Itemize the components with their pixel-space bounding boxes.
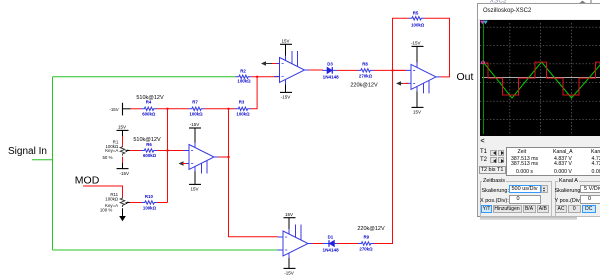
svg-text:100kΩ: 100kΩ bbox=[237, 79, 251, 84]
wire vertical net x167.5 bbox=[167, 109, 169, 203]
scope timebase input bbox=[509, 185, 541, 194]
svg-text:D1: D1 bbox=[328, 234, 334, 239]
wire junction F to U4 minus input bbox=[393, 69, 406, 71]
wire D3 to R8 bbox=[338, 69, 358, 71]
ground arrow below R11 bbox=[119, 208, 126, 221]
resistor R2 bbox=[236, 69, 252, 84]
node MOD label bbox=[75, 174, 100, 186]
svg-text:220k@12V: 220k@12V bbox=[357, 226, 385, 232]
svg-text:220k@12V: 220k@12V bbox=[350, 82, 378, 88]
cursor marker T2 bbox=[483, 20, 488, 24]
node XSC2 partial label above scope bbox=[489, 0, 507, 4]
node Signal In label bbox=[8, 146, 47, 157]
svg-text:R10: R10 bbox=[145, 194, 154, 199]
resistor R9 bbox=[357, 226, 385, 251]
resistor R4 bbox=[136, 95, 164, 117]
node junction F bbox=[391, 69, 393, 71]
scope A/B button bbox=[537, 205, 550, 213]
oscilloscope panel XSC2 bbox=[477, 3, 600, 217]
wire vertical net x228.5 down to U3 bbox=[229, 109, 278, 237]
power 15V below U1 bbox=[189, 172, 201, 192]
power -15V above U4 bbox=[411, 41, 424, 63]
scope Zeitbasis groupbox bbox=[480, 181, 552, 217]
op-amp U4 bbox=[406, 62, 441, 93]
power -15V row1 bbox=[109, 103, 130, 116]
scope panel drop shadow bbox=[480, 216, 577, 220]
scope Hinzufuegen button bbox=[493, 205, 522, 213]
cursor marker T1 bbox=[480, 20, 485, 24]
wire R10 to vertical net bbox=[158, 202, 168, 204]
svg-text:15V: 15V bbox=[285, 212, 293, 217]
svg-text:-15V: -15V bbox=[109, 107, 118, 112]
wire U3 output to D1 bbox=[313, 243, 323, 245]
node junction B bbox=[166, 108, 168, 110]
wire R9 up to junction F bbox=[374, 70, 393, 243]
svg-text:100kΩ: 100kΩ bbox=[143, 205, 157, 210]
wire U1 output to vertical net bbox=[219, 156, 229, 158]
scope channel A scale input bbox=[580, 185, 600, 194]
scope T2 bis T1 label bbox=[479, 166, 506, 174]
potentiometer R1 bbox=[102, 139, 129, 160]
scope AC button bbox=[555, 205, 567, 213]
resistor R7 bbox=[189, 100, 205, 117]
node junction C bbox=[227, 108, 229, 110]
power -15V above U1 bbox=[189, 122, 201, 142]
svg-text:R8: R8 bbox=[362, 61, 368, 66]
ground arrow U4 plus input bbox=[396, 81, 408, 85]
power 15V above U2 bbox=[280, 39, 292, 56]
svg-text:R9: R9 bbox=[364, 234, 370, 239]
svg-text:-15V: -15V bbox=[120, 171, 130, 176]
svg-text:50 %: 50 % bbox=[102, 155, 112, 160]
wire U2 output to D3 bbox=[309, 69, 323, 71]
scope Kanal A groupbox bbox=[555, 181, 600, 217]
scope 0 button bbox=[568, 205, 581, 213]
svg-text:270kΩ: 270kΩ bbox=[359, 246, 373, 251]
svg-text:1N4148: 1N4148 bbox=[323, 248, 340, 253]
power -15V below U2 bbox=[280, 85, 292, 100]
wire R1 bottom to -15V bbox=[122, 157, 124, 163]
wire R8 to junction F bbox=[374, 69, 406, 71]
scope B/A button bbox=[523, 205, 536, 213]
wire green vertical bus bbox=[52, 77, 54, 250]
svg-text:-15V: -15V bbox=[281, 95, 291, 100]
svg-text:R3: R3 bbox=[239, 100, 245, 105]
svg-text:270kΩ: 270kΩ bbox=[359, 74, 373, 79]
scope title bar bbox=[478, 4, 600, 19]
scope readout table bbox=[506, 147, 600, 176]
scope DC button bbox=[582, 205, 596, 213]
scope trace green triangle wave bbox=[482, 62, 600, 98]
svg-text:100kΩ: 100kΩ bbox=[189, 112, 203, 117]
scope channel B zero line bbox=[482, 76, 600, 78]
svg-text:100 %: 100 % bbox=[100, 208, 113, 213]
node junction E bbox=[227, 156, 229, 158]
resistor R8 bbox=[350, 61, 378, 88]
resistor R6 bbox=[133, 137, 161, 158]
wire green bottom horizontal to op-amp U3 bbox=[53, 249, 278, 251]
power -15V below R1 bbox=[117, 163, 130, 176]
svg-text:-15V: -15V bbox=[284, 271, 294, 276]
svg-text:15V: 15V bbox=[190, 187, 198, 192]
scope trace green vertical bbox=[483, 22, 485, 134]
potentiometer R11 bbox=[100, 192, 130, 213]
scope grid bbox=[480, 23, 600, 134]
wire R7 to R3 bbox=[205, 108, 236, 110]
svg-text:Out: Out bbox=[457, 71, 474, 83]
svg-text:600kΩ: 600kΩ bbox=[143, 153, 157, 158]
wire R2 to U2 minus input bbox=[252, 76, 281, 78]
wire junction A down to R3 bbox=[251, 77, 257, 109]
scope scrollbar bbox=[479, 139, 600, 147]
scrollbar up arrow top right bbox=[579, 0, 591, 4]
svg-text:Key=A: Key=A bbox=[105, 148, 118, 153]
ground arrow U1 plus input bbox=[179, 161, 187, 165]
wire R6 to U1 minus input bbox=[157, 150, 184, 152]
svg-text:R7: R7 bbox=[192, 100, 198, 105]
svg-text:R2: R2 bbox=[240, 69, 246, 74]
resistor R5 bbox=[409, 10, 425, 27]
svg-text:510k@12V: 510k@12V bbox=[133, 137, 161, 143]
power 15V above R1 bbox=[117, 125, 129, 136]
wire feedback loop with R5 bbox=[393, 18, 450, 77]
svg-text:R5: R5 bbox=[413, 10, 419, 15]
power 15V below U4 bbox=[412, 91, 424, 114]
wire 15V to R1 bbox=[122, 136, 124, 146]
resistor R10 bbox=[142, 194, 158, 210]
svg-text:600kΩ: 600kΩ bbox=[142, 112, 156, 117]
op-amp U2 bbox=[274, 51, 309, 85]
svg-text:15V: 15V bbox=[118, 125, 126, 130]
svg-text:100kΩ: 100kΩ bbox=[411, 22, 425, 27]
scope x pos input bbox=[509, 195, 541, 204]
scope T1 T2 controls bbox=[480, 149, 487, 155]
wire MOD to R11 bbox=[83, 186, 123, 197]
op-amp U3 bbox=[278, 225, 313, 259]
resistor R3 bbox=[235, 100, 251, 117]
wire signal-in stub bbox=[32, 159, 53, 161]
svg-text:-15V: -15V bbox=[190, 122, 200, 127]
scope y pos input bbox=[580, 195, 600, 204]
diode D3 bbox=[323, 61, 340, 79]
diode D1 bbox=[323, 234, 340, 252]
wire supply to R4 bbox=[131, 108, 142, 110]
power 15V above U3 bbox=[284, 212, 296, 229]
wire R1 wiper to R6 bbox=[130, 150, 142, 152]
node junction A bbox=[256, 76, 258, 78]
svg-text:15V: 15V bbox=[413, 110, 421, 115]
scope trace red bbox=[481, 62, 600, 95]
wire green top horizontal to R2 bbox=[53, 76, 236, 78]
node junction D bbox=[166, 149, 168, 151]
scope Y/T button bbox=[481, 205, 492, 213]
svg-text:100kΩ: 100kΩ bbox=[236, 112, 250, 117]
ground arrow U2 plus input bbox=[261, 61, 277, 65]
svg-text:MOD: MOD bbox=[75, 174, 100, 186]
node Out label bbox=[457, 71, 474, 83]
svg-text:D3: D3 bbox=[327, 61, 333, 66]
power -15V below U3 bbox=[284, 258, 296, 276]
svg-text:Signal In: Signal In bbox=[8, 146, 47, 157]
svg-text:100kΩ: 100kΩ bbox=[105, 197, 119, 202]
wire D1 to R9 bbox=[338, 243, 359, 245]
op-amp U1 bbox=[184, 143, 219, 174]
svg-text:-15V: -15V bbox=[411, 41, 421, 46]
scope display bbox=[480, 20, 600, 137]
svg-text:1N4148: 1N4148 bbox=[323, 74, 340, 79]
wire R11 wiper to R10 bbox=[130, 202, 142, 204]
wire R4 to R7 bbox=[157, 108, 189, 110]
svg-text:15V: 15V bbox=[281, 39, 289, 44]
svg-text:510k@12V: 510k@12V bbox=[136, 95, 164, 101]
